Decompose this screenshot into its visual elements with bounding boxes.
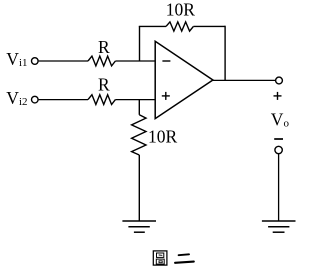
op-amp inverting input minus sign <box>162 60 170 62</box>
ground left <box>122 221 156 232</box>
wire feedback top left segment <box>139 25 166 27</box>
output terminal Vo minus <box>275 146 282 153</box>
wire Vi1 to R1 <box>39 60 88 62</box>
wire R4 to ground <box>138 155 140 221</box>
op-amp non-inverting input plus sign <box>162 92 170 100</box>
op-amp U1 <box>155 41 213 118</box>
wire non-inverting node down to R4 <box>138 100 140 115</box>
wire R2 to op-amp non-inverting input <box>115 99 155 101</box>
caption figure two character tu <box>153 251 167 265</box>
ground right <box>262 221 296 232</box>
wire inverting node up to feedback <box>139 26 141 61</box>
svg-text:10R: 10R <box>166 0 196 20</box>
wire R1 to op-amp inverting input <box>115 60 155 62</box>
caption figure two character er <box>175 254 194 262</box>
resistor R1 <box>88 56 115 66</box>
output plus sign <box>274 92 282 100</box>
output minus sign <box>274 138 283 140</box>
output terminal Vo plus <box>276 77 283 84</box>
wire feedback down to output node <box>224 26 226 81</box>
wire feedback top right segment <box>193 25 225 27</box>
svg-text:R: R <box>98 75 110 95</box>
wire Vi2 to R2 <box>39 99 88 101</box>
resistor R4 10R to ground <box>132 115 146 155</box>
input terminal Vi2 <box>32 96 39 103</box>
wire Vo minus terminal to ground <box>278 154 280 221</box>
resistor R3 feedback 10R <box>166 22 193 31</box>
wire op-amp output to terminal <box>213 79 275 81</box>
input terminal Vi1 <box>32 58 39 65</box>
svg-text:R: R <box>98 37 110 57</box>
resistor R2 <box>88 95 115 105</box>
svg-text:10R: 10R <box>148 126 178 146</box>
